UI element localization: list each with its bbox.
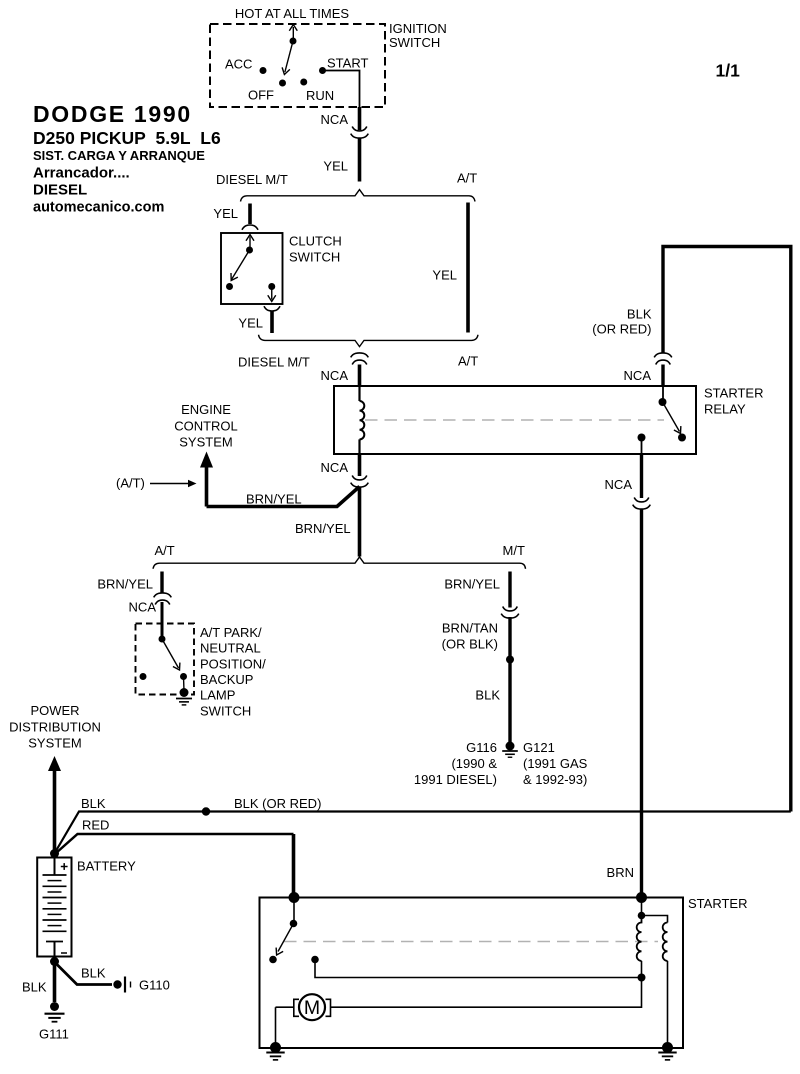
svg-text:YEL: YEL: [213, 206, 238, 221]
svg-text:BRN/YEL: BRN/YEL: [444, 577, 500, 592]
svg-text:POSITION/: POSITION/: [200, 657, 266, 672]
svg-text:YEL: YEL: [432, 268, 457, 283]
svg-text:NCA: NCA: [605, 477, 633, 492]
svg-text:BLK (OR RED): BLK (OR RED): [234, 796, 321, 811]
svg-text:CONTROL: CONTROL: [174, 419, 238, 434]
svg-text:BACKUP: BACKUP: [200, 672, 253, 687]
svg-text:SWITCH: SWITCH: [289, 250, 340, 265]
svg-text:(1990 &: (1990 &: [451, 756, 497, 771]
svg-text:G116: G116: [466, 740, 497, 755]
svg-text:BLK: BLK: [475, 688, 500, 703]
svg-text:HOT AT ALL TIMES: HOT AT ALL TIMES: [235, 6, 349, 21]
svg-text:(OR BLK): (OR BLK): [442, 637, 498, 652]
svg-text:Arrancador....: Arrancador....: [33, 165, 130, 182]
svg-text:A/T: A/T: [458, 354, 478, 369]
svg-text:BATTERY: BATTERY: [77, 859, 136, 874]
svg-text:IGNITION: IGNITION: [389, 21, 447, 36]
svg-text:YEL: YEL: [238, 316, 263, 331]
svg-text:A/T: A/T: [155, 543, 175, 558]
svg-text:DODGE 1990: DODGE 1990: [33, 101, 192, 127]
svg-text:ENGINE: ENGINE: [181, 402, 231, 417]
svg-text:M/T: M/T: [503, 543, 525, 558]
svg-text:NCA: NCA: [129, 600, 157, 615]
svg-text:DISTRIBUTION: DISTRIBUTION: [9, 720, 101, 735]
svg-text:DIESEL M/T: DIESEL M/T: [238, 355, 310, 370]
svg-text:automecanico.com: automecanico.com: [33, 200, 164, 216]
svg-text:OFF: OFF: [248, 88, 274, 103]
svg-text:(1991 GAS: (1991 GAS: [523, 756, 588, 771]
svg-text:STARTER: STARTER: [688, 896, 747, 911]
svg-text:1/1: 1/1: [716, 61, 741, 81]
svg-text:BRN: BRN: [607, 865, 634, 880]
svg-text:START: START: [327, 56, 368, 71]
svg-text:BLK: BLK: [627, 307, 652, 322]
svg-text:SIST. CARGA Y ARRANQUE: SIST. CARGA Y ARRANQUE: [33, 148, 205, 163]
svg-text:BLK: BLK: [81, 796, 106, 811]
svg-text:BRN/YEL: BRN/YEL: [295, 521, 351, 536]
svg-text:& 1992-93): & 1992-93): [523, 772, 587, 787]
svg-text:NCA: NCA: [321, 368, 349, 383]
svg-text:NEUTRAL: NEUTRAL: [200, 641, 261, 656]
svg-text:DIESEL M/T: DIESEL M/T: [216, 172, 288, 187]
svg-text:POWER: POWER: [30, 703, 79, 718]
svg-text:NCA: NCA: [624, 368, 652, 383]
svg-text:A/T PARK/: A/T PARK/: [200, 625, 262, 640]
svg-text:DIESEL: DIESEL: [33, 182, 87, 199]
svg-text:G110: G110: [139, 978, 170, 993]
svg-text:ACC: ACC: [225, 57, 252, 72]
svg-text:RELAY: RELAY: [704, 402, 746, 417]
svg-text:LAMP: LAMP: [200, 688, 235, 703]
svg-text:BRN/YEL: BRN/YEL: [97, 577, 153, 592]
svg-text:NCA: NCA: [321, 460, 349, 475]
svg-text:SYSTEM: SYSTEM: [179, 435, 232, 450]
svg-text:SYSTEM: SYSTEM: [28, 736, 81, 751]
svg-text:D250 PICKUP 5.9L L6: D250 PICKUP 5.9L L6: [33, 128, 221, 148]
svg-text:SWITCH: SWITCH: [200, 704, 251, 719]
svg-text:SWITCH: SWITCH: [389, 35, 440, 50]
svg-text:G121: G121: [523, 740, 555, 755]
svg-text:A/T: A/T: [457, 171, 477, 186]
svg-text:CLUTCH: CLUTCH: [289, 234, 342, 249]
svg-text:BRN/TAN: BRN/TAN: [442, 621, 498, 636]
svg-text:1991 DIESEL): 1991 DIESEL): [414, 772, 497, 787]
svg-text:M: M: [304, 997, 320, 1019]
svg-text:RUN: RUN: [306, 88, 334, 103]
svg-text:NCA: NCA: [321, 112, 349, 127]
svg-text:STARTER: STARTER: [704, 386, 763, 401]
svg-text:BLK: BLK: [81, 966, 106, 981]
svg-text:BRN/YEL: BRN/YEL: [246, 492, 302, 507]
svg-text:G111: G111: [39, 1027, 69, 1042]
svg-text:(A/T): (A/T): [116, 476, 145, 491]
svg-text:RED: RED: [82, 818, 109, 833]
svg-text:YEL: YEL: [323, 159, 348, 174]
svg-text:BLK: BLK: [22, 980, 47, 995]
svg-text:(OR RED): (OR RED): [592, 322, 651, 337]
